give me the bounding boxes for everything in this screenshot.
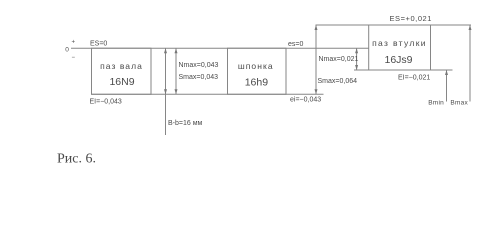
svg-text:EI=−0,021: EI=−0,021 — [398, 75, 430, 82]
box паз втулки 16Js9 — [369, 25, 431, 70]
dimension line Nmax left — [165, 48, 167, 135]
svg-text:паз втулки: паз втулки — [372, 38, 427, 48]
svg-text:0: 0 — [65, 46, 69, 53]
line EI -0,043 level — [92, 93, 324, 95]
svg-text:Рис. 6.: Рис. 6. — [57, 152, 96, 167]
svg-text:шпонка: шпонка — [238, 61, 274, 71]
node 0 datum marks — [65, 40, 75, 61]
dimension line Smax right — [315, 25, 317, 94]
svg-text:+: + — [72, 40, 76, 46]
svg-text:Smax=0,064: Smax=0,064 — [318, 78, 358, 85]
svg-text:Nmax=0,043: Nmax=0,043 — [179, 62, 219, 69]
svg-text:EI=−0,043: EI=−0,043 — [90, 99, 122, 106]
svg-text:ES=+0,021: ES=+0,021 — [390, 14, 432, 23]
svg-text:ES=0: ES=0 — [90, 41, 107, 48]
svg-text:16h9: 16h9 — [245, 77, 269, 89]
dimension line Bmin — [446, 70, 448, 102]
dimension line Nmax right — [356, 48, 358, 70]
dimension line Bmax — [469, 25, 471, 102]
box шпонка 16h9 — [228, 48, 287, 94]
svg-text:es=0: es=0 — [288, 41, 303, 48]
svg-text:Nmax=0,021: Nmax=0,021 — [319, 56, 359, 63]
svg-text:Bmax: Bmax — [450, 100, 468, 107]
zero line — [71, 47, 369, 49]
svg-text:Smax=0,043: Smax=0,043 — [179, 74, 219, 81]
svg-text:16N9: 16N9 — [109, 76, 134, 88]
box паз вала 16N9 — [92, 48, 152, 94]
svg-text:16Js9: 16Js9 — [384, 54, 412, 66]
svg-text:B-b=16 мм: B-b=16 мм — [168, 120, 203, 127]
line EI -0,021 level right segment — [431, 69, 453, 71]
svg-text:паз вала: паз вала — [100, 61, 143, 71]
svg-text:Bmin: Bmin — [428, 100, 444, 107]
line EI -0,021 level left segment — [354, 69, 369, 71]
svg-text:−: − — [72, 55, 76, 61]
line ES +0,021 level — [316, 24, 472, 26]
dimension line Smax left — [175, 48, 177, 94]
svg-text:ei=−0,043: ei=−0,043 — [290, 97, 321, 104]
